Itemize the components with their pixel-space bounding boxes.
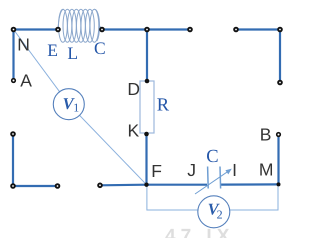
node bottom open end bbox=[97, 183, 103, 189]
svg-text:K: K bbox=[128, 120, 140, 140]
node bottom-left right end bbox=[55, 183, 61, 189]
node bottom-left top end bbox=[10, 131, 16, 137]
wire capacitor right plate to corner M bbox=[221, 183, 279, 185]
svg-text:R: R bbox=[157, 96, 170, 116]
node junction above R bbox=[144, 27, 150, 33]
wire bottom-left vertical segment bbox=[12, 134, 14, 186]
voltmeter V2 bbox=[198, 196, 230, 228]
thin wire voltmeter V1 to node F bbox=[69, 104, 147, 185]
node F junction bbox=[144, 183, 148, 187]
node top-right corner bbox=[277, 27, 283, 33]
terminal A bbox=[11, 78, 16, 83]
node N bbox=[11, 27, 17, 33]
svg-text:J: J bbox=[187, 160, 196, 180]
node D resistor top bbox=[145, 79, 150, 84]
wire bottom-left horizontal segment bbox=[13, 185, 58, 187]
svg-text:C: C bbox=[206, 147, 218, 167]
node top-right left end bbox=[233, 27, 239, 33]
node top-right bottom end bbox=[277, 80, 283, 86]
wire junction down to resistor top bbox=[146, 30, 148, 82]
svg-text:47.IX: 47.IX bbox=[165, 226, 234, 238]
wire R-branch junction to open end bbox=[148, 28, 190, 30]
node bottom-left corner bbox=[10, 183, 16, 189]
wire inductor right terminal to R-branch junction bbox=[102, 28, 148, 30]
svg-text:1: 1 bbox=[73, 101, 79, 115]
svg-text:I: I bbox=[232, 160, 237, 180]
thin wire N to voltmeter V1 bbox=[14, 30, 69, 105]
wire N down to terminal A bbox=[12, 30, 14, 81]
thin wire node F down to V2 loop bbox=[147, 185, 198, 210]
resistor R bbox=[140, 81, 154, 133]
thin wire V2 right side up to corner M bbox=[230, 184, 278, 210]
svg-text:N: N bbox=[17, 35, 30, 55]
wire N to inductor left terminal bbox=[14, 28, 59, 30]
svg-text:C: C bbox=[94, 38, 106, 58]
voltmeter V1 bbox=[53, 89, 84, 120]
svg-text:D: D bbox=[127, 79, 140, 99]
wire resistor bottom down to node F bbox=[145, 133, 147, 185]
capacitor C right plate bbox=[219, 167, 222, 189]
terminal B bbox=[276, 132, 281, 137]
node top open end bbox=[187, 27, 193, 33]
wire corner M up to terminal B bbox=[277, 137, 279, 185]
svg-text:B: B bbox=[260, 125, 272, 145]
wire top-right horizontal segment bbox=[236, 28, 280, 30]
svg-text:L: L bbox=[67, 43, 78, 63]
capacitor variable arrow bbox=[195, 169, 232, 194]
svg-text:F: F bbox=[151, 161, 162, 181]
node K resistor bottom bbox=[144, 132, 149, 137]
node corner at M bbox=[277, 182, 281, 186]
inductor L coil bbox=[58, 9, 102, 42]
svg-text:2: 2 bbox=[217, 207, 223, 221]
svg-text:A: A bbox=[20, 71, 32, 91]
node inductor right terminal C bbox=[99, 27, 105, 33]
wire top-right vertical segment bbox=[279, 30, 281, 83]
svg-text:M: M bbox=[259, 160, 274, 180]
capacitor C left plate bbox=[207, 167, 210, 189]
wire node F to capacitor left plate bbox=[147, 184, 208, 186]
wire bottom open end to node F bbox=[100, 184, 147, 187]
svg-text:E: E bbox=[47, 40, 58, 60]
node inductor left terminal E bbox=[55, 27, 61, 33]
